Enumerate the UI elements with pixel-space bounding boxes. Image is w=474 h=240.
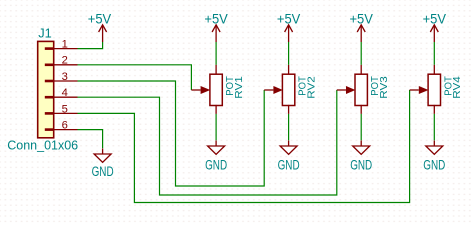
power +5V at J1 pin1 <box>88 12 111 43</box>
svg-text:RV4: RV4 <box>451 76 463 99</box>
svg-text:GND: GND <box>423 157 445 172</box>
svg-text:RV2: RV2 <box>305 76 317 99</box>
potentiometer RV2 <box>264 65 317 114</box>
power +5V at RV4 <box>423 12 446 43</box>
ground GND at J1 pin6 <box>92 149 114 180</box>
ground GND at RV1 <box>205 141 227 173</box>
power +5V at RV1 <box>204 12 227 43</box>
wire pin6 to GND <box>78 130 103 149</box>
J1 pin 5 <box>45 103 78 115</box>
potentiometer RV1 <box>191 65 245 114</box>
ground GND at RV2 <box>278 141 300 173</box>
svg-text:GND: GND <box>278 157 300 172</box>
ground GND at RV3 <box>350 141 372 173</box>
J1 pin 2 <box>45 55 78 67</box>
wire +5V to RV3 <box>360 42 362 65</box>
wire RV4 to GND <box>433 114 435 140</box>
svg-text:+5V: +5V <box>423 12 446 27</box>
wire RV2 to GND <box>288 114 290 140</box>
wire +5V to RV4 <box>433 42 435 65</box>
wire +5V to RV2 <box>288 42 290 65</box>
svg-text:Conn_01x06: Conn_01x06 <box>7 138 78 152</box>
wire pin5 to RV4 wiper <box>78 90 410 203</box>
svg-text:+5V: +5V <box>204 12 227 27</box>
svg-text:+5V: +5V <box>88 12 111 27</box>
svg-text:GND: GND <box>205 157 227 172</box>
power +5V at RV3 <box>350 12 373 43</box>
J1 pin 1 <box>45 39 78 51</box>
wire pin3 to RV2 wiper <box>78 81 265 186</box>
svg-text:+5V: +5V <box>277 12 300 27</box>
wire pin2 to RV1 wiper <box>78 65 192 90</box>
wire +5V to RV1 <box>215 42 217 65</box>
svg-text:2: 2 <box>62 55 68 67</box>
potentiometer RV4 <box>410 65 464 114</box>
connector J1 body <box>38 41 54 137</box>
wire pin1 to +5V <box>78 42 103 49</box>
wire RV1 to GND <box>215 114 217 140</box>
svg-text:4: 4 <box>62 87 68 99</box>
svg-text:3: 3 <box>62 71 68 83</box>
ground GND at RV4 <box>423 141 445 173</box>
J1 pin 6 <box>45 120 78 132</box>
potentiometer RV3 <box>337 65 390 114</box>
svg-text:5: 5 <box>62 103 68 115</box>
svg-text:GND: GND <box>350 157 372 172</box>
J1 pin 3 <box>45 71 78 83</box>
svg-text:RV1: RV1 <box>233 76 245 99</box>
svg-text:+5V: +5V <box>350 12 373 27</box>
svg-text:RV3: RV3 <box>378 76 390 99</box>
svg-text:J1: J1 <box>38 26 52 41</box>
wire RV3 to GND <box>360 114 362 140</box>
svg-text:1: 1 <box>62 39 68 51</box>
svg-text:GND: GND <box>92 164 114 179</box>
power +5V at RV2 <box>277 12 300 43</box>
svg-text:6: 6 <box>62 120 68 132</box>
wire pin4 to RV3 wiper <box>78 90 337 195</box>
J1 pin 4 <box>45 87 78 99</box>
